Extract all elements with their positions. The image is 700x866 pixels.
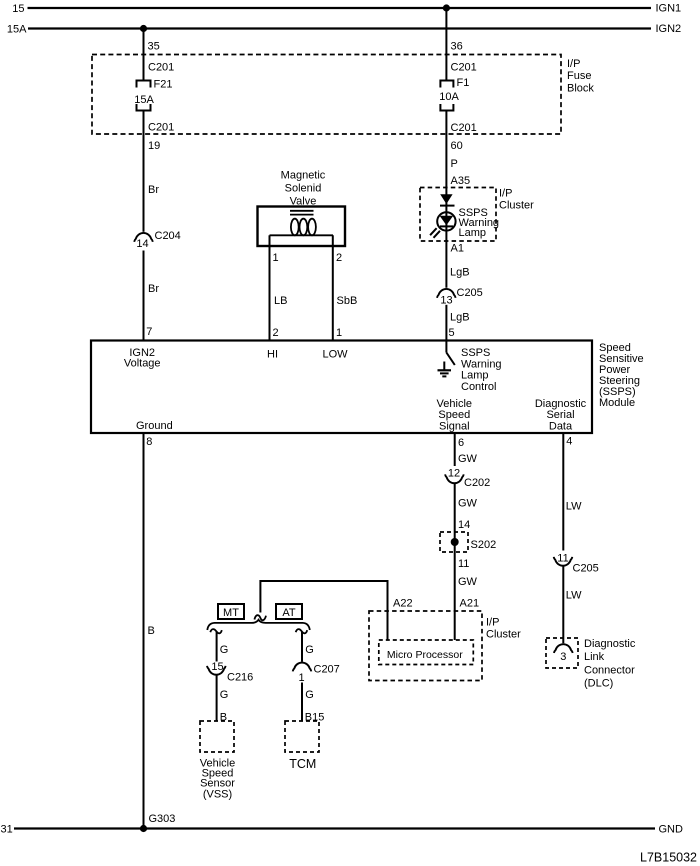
svg-text:Voltage: Voltage [124,357,161,369]
DLC dashed box [546,638,578,668]
svg-text:Lamp: Lamp [459,227,487,239]
svg-text:GW: GW [458,497,478,509]
svg-text:GW: GW [458,453,478,465]
svg-text:Control: Control [461,381,496,393]
micro processor dashed box [379,640,474,665]
connector C204 (pin 14) [134,233,153,242]
SSPS warning lamp (bulb symbol) [437,212,455,230]
TCM dashed box [285,721,319,752]
svg-text:I/P: I/P [499,187,512,199]
ground symbol inside module [443,362,445,371]
svg-text:G: G [220,644,229,656]
svg-text:1: 1 [298,672,304,684]
svg-text:F21: F21 [154,79,173,91]
svg-text:C202: C202 [464,477,490,489]
wire from fuse F21 down to connector C204 [143,111,145,232]
wire from C204 down to module pin 7 [143,251,145,341]
svg-text:G303: G303 [149,813,176,825]
svg-text:Block: Block [567,82,594,94]
break squiggle at branch [254,615,266,620]
splice S202 dashed box [440,532,468,552]
wire from IGN2 junction down to fuse F21 [143,29,145,81]
svg-text:60: 60 [451,140,463,152]
svg-text:A1: A1 [451,243,464,255]
svg-text:(VSS): (VSS) [203,788,232,800]
svg-text:B: B [220,711,227,723]
svg-text:3: 3 [560,651,566,663]
svg-text:S202: S202 [471,539,497,551]
svg-text:19: 19 [148,140,160,152]
node G303 junction on GND rail [140,825,147,832]
svg-text:Connector: Connector [584,664,635,676]
I/P Fuse Block dashed box [92,55,561,135]
svg-text:SbB: SbB [337,295,358,307]
svg-text:A21: A21 [460,598,480,610]
svg-text:C201: C201 [148,122,174,134]
solenoid core lines [290,210,314,212]
connector C205 (pin 11) [554,557,573,566]
svg-text:IGN2: IGN2 [656,23,682,35]
svg-text:C205: C205 [457,287,483,299]
svg-text:Lamp: Lamp [461,369,489,381]
svg-text:13: 13 [440,294,452,306]
connector C205 (pin 13) [437,289,456,298]
svg-text:LgB: LgB [450,266,470,278]
svg-text:36: 36 [451,41,463,53]
pigtail curl right [296,629,308,633]
svg-text:7: 7 [146,326,152,338]
magnetic solenoid valve box [258,207,346,247]
connector C216 (pin 15) [207,666,226,675]
svg-text:C201: C201 [148,62,174,74]
svg-text:Speed: Speed [438,409,470,421]
svg-text:Module: Module [599,397,635,409]
node junction on IGN1 at x=446 [443,4,450,11]
svg-text:Ground: Ground [136,420,173,432]
svg-text:TCM: TCM [289,757,316,771]
svg-text:Br: Br [148,283,159,295]
diode (cathode bar) above lamp [440,194,452,204]
svg-text:C207: C207 [314,664,340,676]
wire LW: module pin 4 down to connector C205 pin 11 [562,433,564,551]
wire G: AT branch down to connector C207 [301,632,303,662]
SSPS module box [91,341,592,434]
svg-text:LW: LW [566,500,582,512]
svg-text:A35: A35 [451,175,471,187]
MT option box [218,604,244,619]
wire LW from C205 to DLC pin 3 [562,566,564,643]
svg-text:15A: 15A [134,94,154,106]
wire GW: module pin 6 down to connector C202 [454,433,456,466]
svg-text:(DLC): (DLC) [584,677,613,689]
svg-text:Serial: Serial [546,409,574,421]
svg-text:G: G [220,689,229,701]
svg-text:L7B15032: L7B15032 [640,851,697,865]
svg-text:Micro Processor: Micro Processor [387,649,463,661]
svg-text:C201: C201 [451,122,477,134]
svg-text:1: 1 [336,327,342,339]
svg-text:I/P: I/P [567,58,580,70]
svg-text:Cluster: Cluster [486,629,521,641]
svg-text:SSPS: SSPS [461,347,490,359]
lamp rays [434,231,441,238]
svg-text:AT: AT [282,607,296,619]
svg-text:12: 12 [448,467,460,479]
svg-text:Link: Link [584,651,605,663]
svg-text:Cluster: Cluster [499,199,534,211]
svg-text:HI: HI [267,348,278,360]
svg-text:31: 31 [1,824,13,836]
svg-text:B: B [148,625,155,637]
svg-text:LOW: LOW [322,348,348,360]
svg-text:4: 4 [566,435,572,447]
svg-text:Fuse: Fuse [567,70,591,82]
svg-text:I/P: I/P [486,616,499,628]
svg-text:MT: MT [223,607,239,619]
connector C207 (pin 1) [293,663,312,672]
option brace [207,620,309,630]
svg-text:14: 14 [136,238,148,250]
svg-text:Signal: Signal [439,420,470,432]
wire GND rail [14,827,655,829]
connector pin 3 arc in DLC [554,644,573,653]
svg-text:F1: F1 [457,77,470,89]
svg-text:6: 6 [458,437,464,449]
svg-text:G: G [305,644,314,656]
wire G: MT branch down to connector C216 [216,632,218,662]
node S202 splice dot [451,538,459,546]
pigtail curl left [210,629,222,633]
svg-text:11: 11 [557,552,568,564]
wire IGN2 rail [28,27,651,29]
svg-text:35: 35 [148,41,160,53]
svg-text:LW: LW [566,589,582,601]
connector C202 (pin 12) [445,474,464,483]
wire from fuse F1 down through lamp to connector C205 [445,111,447,288]
svg-text:Valve: Valve [290,195,317,207]
wire LB: valve pin 1 to module HI pin 2 [269,235,271,340]
svg-text:P: P [451,158,458,170]
svg-text:LB: LB [274,295,287,307]
svg-text:14: 14 [458,519,470,531]
solenoid coil L [270,234,334,236]
svg-text:G: G [305,689,314,701]
svg-text:C205: C205 [573,562,599,574]
svg-text:C204: C204 [155,230,181,242]
wire A22 branch horizontal [260,581,387,640]
wire from C207 to TCM [301,683,303,722]
wire from IGN1 junction down to fuse F1 [445,8,447,80]
wire GW from C202 through S202 to micro processor pin A21 [454,484,456,641]
svg-text:Data: Data [549,420,573,432]
wire IGN1 rail [28,7,652,9]
svg-text:IGN1: IGN1 [656,3,682,15]
VSS dashed box [200,721,234,752]
svg-text:2: 2 [336,252,342,264]
svg-text:A22: A22 [393,598,413,610]
wire from C205 to module pin 5 [445,305,447,341]
wire SbB: valve pin 2 to module LOW pin 1 [332,235,334,340]
svg-text:Diagnostic: Diagnostic [584,638,636,650]
fuse F21 [137,81,151,88]
svg-text:15: 15 [12,3,24,15]
svg-text:LgB: LgB [450,311,470,323]
svg-text:GND: GND [659,824,684,836]
AT option box [276,604,302,619]
svg-text:Br: Br [148,184,159,196]
I/P Cluster dashed box (warning lamp) [420,188,496,242]
svg-text:10A: 10A [439,91,459,103]
wire from C216 to VSS [216,675,218,721]
svg-text:5: 5 [449,327,455,339]
svg-text:11: 11 [458,558,469,570]
svg-text:GW: GW [458,576,478,588]
svg-text:15: 15 [211,661,223,673]
svg-text:8: 8 [146,436,152,448]
wire B: module pin 8 ground down to G303 [143,433,145,829]
node junction on IGN2 at x=143 [140,25,147,32]
svg-text:Magnetic: Magnetic [281,169,326,181]
svg-text:1: 1 [273,252,279,264]
svg-text:Solenid: Solenid [285,182,322,194]
svg-text:B15: B15 [305,711,325,723]
svg-text:2: 2 [273,327,279,339]
I/P Cluster dashed box (micro processor) [369,611,482,681]
svg-text:C201: C201 [451,62,477,74]
switch blade inside module [445,341,447,353]
svg-text:C216: C216 [227,671,253,683]
svg-text:15A: 15A [7,24,27,36]
fuse F1 [440,81,453,88]
